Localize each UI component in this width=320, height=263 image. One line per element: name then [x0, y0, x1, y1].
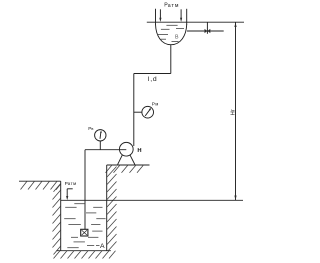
pit (tank A) right wall: [106, 165, 108, 251]
svg-text:l,d: l,d: [148, 76, 158, 83]
valve right triangle: [207, 29, 210, 33]
vacuum gauge Pv needle: [100, 131, 102, 139]
pump left leg: [118, 155, 123, 165]
dimension arrow down: [234, 196, 236, 201]
pipe jog (horizontal): [134, 73, 171, 75]
tank B bowl: [156, 25, 187, 45]
tank B outlet pipe (vertical): [170, 45, 172, 74]
svg-text:B: B: [175, 34, 179, 40]
svg-text:Pатм: Pатм: [65, 181, 77, 187]
valve stem: [206, 22, 208, 34]
pit (tank A) left wall: [60, 181, 62, 251]
dimension line Hg: [235, 22, 237, 200]
pipe to consumer from tank B: [187, 30, 224, 32]
manometer Pm circle: [142, 106, 154, 118]
Patm arrow 2 (tank B): [180, 9, 182, 22]
vacuum gauge Pv stem: [99, 141, 101, 150]
manometer Pm stub: [134, 111, 142, 113]
foot valve / strainer box: [81, 229, 88, 236]
pit liquid dashes: [64, 204, 105, 248]
lower level reference line (pit liquid surface): [61, 199, 243, 201]
valve left triangle: [205, 29, 208, 33]
dimension arrow up: [234, 22, 236, 27]
tank B left wall: [155, 9, 157, 25]
svg-text:Pатм: Pатм: [164, 3, 179, 9]
strainer cross: [82, 230, 87, 235]
left ground hatching: [21, 181, 61, 190]
tank B liquid dashes: [157, 25, 184, 41]
pit right wall hatching: [107, 167, 117, 251]
suction pipe vertical into pit: [84, 150, 86, 230]
left ground surface line: [19, 180, 61, 182]
right ground surface line: [107, 164, 150, 166]
svg-text:Hг: Hг: [230, 109, 236, 115]
suction pipe horizontal: [85, 149, 126, 151]
pit (tank A) bottom: [56, 250, 110, 252]
vacuum gauge Pv circle: [95, 130, 106, 141]
pump right leg: [130, 155, 135, 165]
manometer Pm needle: [145, 108, 151, 116]
discharge pipe (vertical): [133, 74, 135, 147]
Patm arrow 1 (tank B): [159, 9, 161, 22]
pit left wall hatching: [53, 184, 61, 255]
pump circle: [119, 142, 133, 156]
right ground hatching: [106, 165, 144, 173]
pit bottom hatching: [54, 251, 116, 259]
svg-text:A: A: [100, 243, 105, 250]
tank B right wall: [186, 9, 188, 25]
Patm arrow (pit): [66, 189, 73, 200]
svg-text:Н: Н: [137, 148, 141, 154]
node upper level reference line: [147, 21, 244, 23]
